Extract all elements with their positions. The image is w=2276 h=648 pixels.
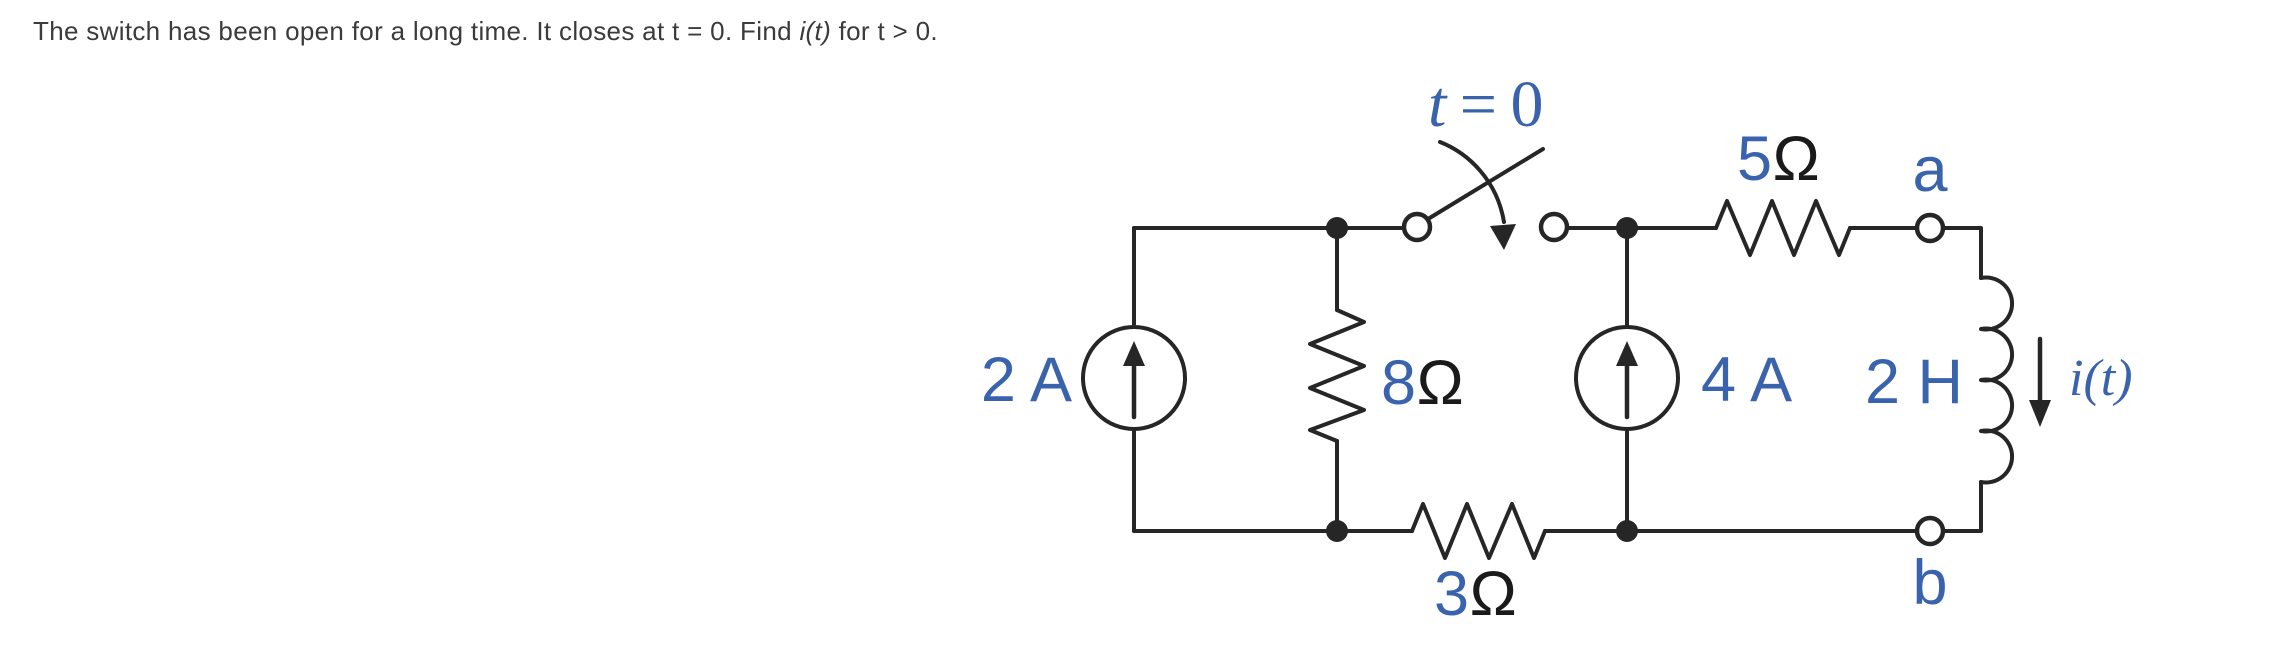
wire switch to 4A node — [1567, 226, 1716, 230]
junction dot node top-left — [1326, 217, 1348, 239]
wire 8-ohm bottom stub — [1335, 441, 1339, 531]
svg-text:3Ω: 3Ω — [1434, 559, 1517, 629]
resistor R2 5 ohm zigzag — [1716, 201, 1850, 255]
svg-text:8Ω: 8Ω — [1381, 348, 1464, 418]
svg-text:i(t): i(t) — [2069, 350, 2133, 407]
svg-text:2 A: 2 A — [981, 345, 1072, 415]
switch closing arrow — [1440, 142, 1516, 250]
switch blade — [1428, 149, 1543, 219]
resistor R3 3 ohm zigzag — [1412, 504, 1545, 558]
wire left vertical upper — [1132, 228, 1136, 327]
svg-text:5Ω: 5Ω — [1737, 124, 1820, 194]
junction dot node top-mid — [1616, 217, 1638, 239]
junction dot node bottom-left — [1326, 520, 1348, 542]
wire 4A top stub — [1625, 228, 1629, 327]
svg-text:4 A: 4 A — [1701, 345, 1792, 415]
wire 4A bottom stub — [1625, 429, 1629, 531]
inductor L1 2H coil — [1981, 278, 2012, 483]
svg-text:t = 0: t = 0 — [1428, 68, 1542, 141]
current source I2 4A arrow — [1616, 341, 1638, 417]
svg-text:2 H: 2 H — [1865, 347, 1963, 417]
node a terminal — [1917, 215, 1943, 241]
wire bottom-left horizontal — [1134, 529, 1412, 533]
wire top-left horizontal — [1134, 226, 1404, 230]
switch terminal left — [1404, 214, 1430, 240]
wire inductor bottom to node b — [1943, 482, 1981, 531]
resistor R1 8 ohm zigzag — [1310, 310, 1364, 441]
wire node a to top-right corner — [1943, 228, 1981, 278]
node b terminal — [1917, 518, 1943, 544]
svg-text:a: a — [1912, 135, 1948, 205]
current arrow i(t) — [2029, 339, 2051, 427]
current source I1 2A arrow — [1123, 341, 1145, 417]
wire bottom-mid horizontal — [1545, 529, 1917, 533]
current source I1 2A circle — [1083, 327, 1185, 429]
svg-text:b: b — [1912, 548, 1947, 618]
junction dot node bottom-mid — [1616, 520, 1638, 542]
wire 5-ohm to node a — [1850, 226, 1917, 230]
wire left vertical lower — [1132, 429, 1136, 531]
wire 8-ohm top stub — [1335, 228, 1339, 310]
switch terminal right — [1541, 214, 1567, 240]
current source I2 4A circle — [1576, 327, 1678, 429]
